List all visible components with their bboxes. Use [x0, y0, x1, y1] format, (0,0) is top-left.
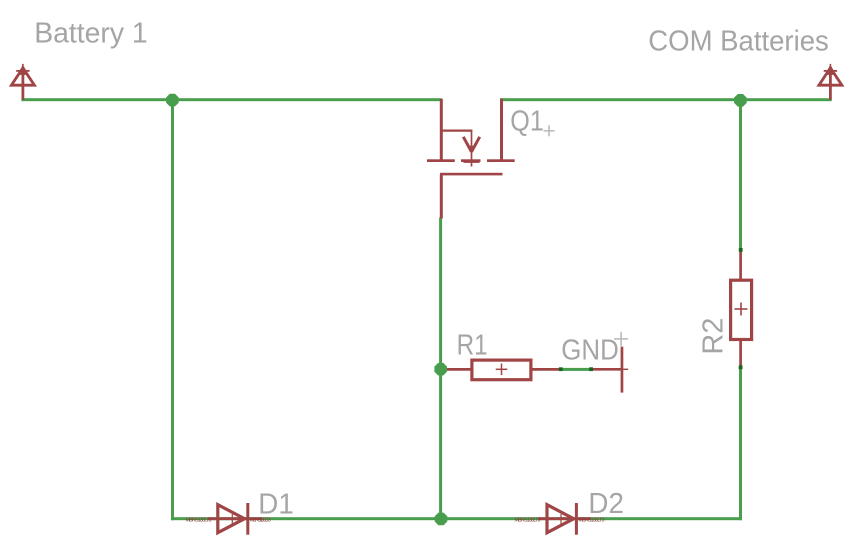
wire right vertical upper (top wire to R2)	[739, 98, 742, 250]
wire left vertical	[171, 98, 174, 520]
R1 left pin	[446, 368, 471, 371]
Q1 drain pin vertical	[440, 99, 443, 160]
D1 pin line	[208, 517, 262, 520]
R2 origin cross	[735, 308, 748, 310]
net endpoint dot R1-GND left	[559, 367, 563, 371]
GND origin thin line	[617, 368, 629, 370]
R1 body	[472, 360, 531, 380]
Q1 arrow left arm	[463, 137, 471, 152]
Q1 arrow right arm	[472, 137, 480, 152]
wire top-right (Q1 source to pin COM)	[500, 98, 832, 101]
resistor R1	[446, 360, 561, 380]
D2 origin cross	[560, 514, 562, 526]
wire middle vertical (Q1 gate to bottom)	[439, 218, 442, 521]
net endpoint dot R1-GND right	[589, 367, 593, 371]
GND pin line	[592, 368, 623, 371]
svg-text:GND: GND	[561, 334, 619, 366]
supply pin COM	[819, 64, 842, 100]
junction at top-left vertical	[166, 94, 179, 107]
wire top-left (pin BATTERY1 to Q1 drain)	[21, 98, 441, 101]
junction at bottom middle	[435, 513, 448, 526]
supply pin BATTERY1	[11, 64, 34, 100]
diode D1	[208, 503, 262, 535]
svg-text:R2: R2	[698, 318, 730, 355]
D2 cathode bar	[575, 503, 578, 535]
svg-text:MBRS130LT3: MBRS130LT3	[515, 517, 541, 523]
Q1 value origin cross (gray)	[544, 125, 555, 136]
net endpoint dot R2 top	[739, 248, 743, 252]
Q1 channel bar left	[427, 159, 455, 162]
svg-text:Battery 1: Battery 1	[34, 17, 148, 49]
Q1 bulk branch horizontal	[440, 130, 472, 132]
Q1 gate plate	[440, 173, 503, 176]
svg-text:COM Batteries: COM Batteries	[648, 26, 829, 58]
svg-text:D1: D1	[258, 488, 294, 520]
resistor R2	[731, 250, 752, 367]
ground GND symbol	[592, 347, 629, 393]
svg-text:Q1: Q1	[510, 105, 544, 137]
R1 origin cross	[496, 368, 508, 370]
D1 origin cross	[231, 514, 233, 526]
Q1 bulk thin vertical	[471, 130, 473, 167]
svg-text:D2: D2	[588, 488, 624, 520]
wire right vertical lower (R2 to bottom wire)	[739, 367, 742, 520]
net endpoint dot R2 bottom	[739, 365, 743, 369]
Q1 arrowhead	[467, 146, 476, 153]
svg-text:R1: R1	[457, 330, 488, 362]
R2 bottom pin	[739, 341, 742, 367]
junction at top-right vertical	[734, 94, 747, 107]
junction at R1 tap	[434, 363, 447, 376]
Q1 gate pin vertical	[440, 175, 443, 219]
D1 anode triangle	[218, 505, 245, 533]
Q1 source pin vertical	[500, 99, 503, 160]
GND bar	[621, 347, 624, 393]
wire bottom horizontal	[171, 517, 742, 520]
Q1 origin cross	[464, 161, 480, 163]
Q1 channel bar middle	[461, 159, 481, 162]
GND origin cross (gray)	[614, 332, 628, 346]
D1 cathode bar	[246, 503, 249, 535]
svg-text:MBRS130LT3: MBRS130LT3	[186, 517, 212, 523]
transistor Q1	[427, 99, 515, 219]
R2 top pin	[739, 250, 742, 280]
R1 right pin	[532, 368, 560, 371]
Q1 channel bar right	[487, 159, 515, 162]
D2 pin line	[538, 517, 591, 520]
D2 anode triangle	[547, 505, 574, 533]
R2 body	[731, 280, 752, 339]
diode D2	[538, 503, 591, 535]
wire R1 to GND	[560, 368, 593, 371]
